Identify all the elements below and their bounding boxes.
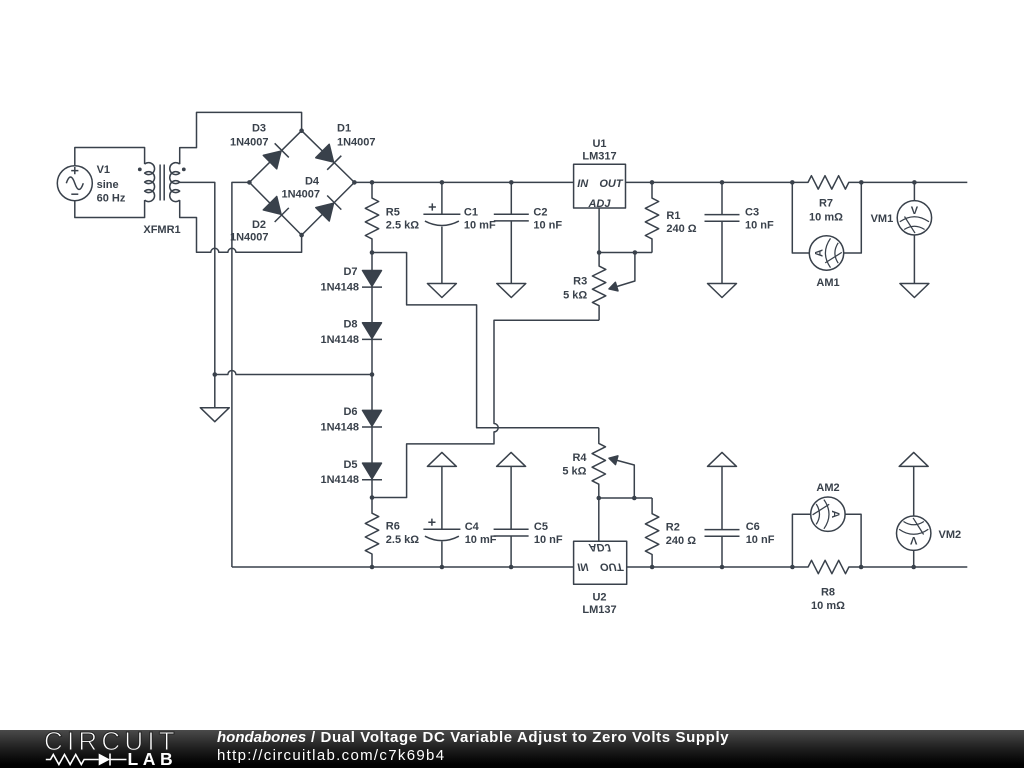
svg-text:R5: R5 <box>386 207 400 219</box>
svg-text:D1: D1 <box>337 123 351 135</box>
svg-text:1N4148: 1N4148 <box>320 421 359 433</box>
svg-text:R8: R8 <box>821 586 835 598</box>
svg-text:VM2: VM2 <box>939 529 962 541</box>
svg-text:1N4148: 1N4148 <box>320 282 359 294</box>
svg-text:U1: U1 <box>592 138 606 150</box>
svg-text:D8: D8 <box>343 319 357 331</box>
svg-text:D4: D4 <box>305 175 320 187</box>
svg-text:C4: C4 <box>465 521 480 533</box>
svg-text:LM137: LM137 <box>582 604 616 616</box>
svg-text:D7: D7 <box>343 266 357 278</box>
svg-text:2.5 kΩ: 2.5 kΩ <box>386 534 419 546</box>
svg-text:1N4007: 1N4007 <box>230 231 269 243</box>
svg-text:R7: R7 <box>819 198 833 210</box>
svg-text:VM1: VM1 <box>871 213 894 225</box>
svg-text:C2: C2 <box>533 207 547 219</box>
svg-text:sine: sine <box>97 179 119 191</box>
svg-text:240 Ω: 240 Ω <box>666 223 696 235</box>
svg-text:2.5 kΩ: 2.5 kΩ <box>386 220 419 232</box>
svg-text:ADJ: ADJ <box>588 541 612 553</box>
svg-text:R2: R2 <box>666 522 680 534</box>
svg-text:V: V <box>909 534 917 546</box>
svg-text:D2: D2 <box>252 219 266 231</box>
svg-text:10 nF: 10 nF <box>745 220 774 232</box>
svg-text:R3: R3 <box>573 276 587 288</box>
svg-text:240 Ω: 240 Ω <box>666 535 696 547</box>
svg-text:10 mF: 10 mF <box>464 220 496 232</box>
svg-text:10 mΩ: 10 mΩ <box>809 211 843 223</box>
svg-text:R4: R4 <box>572 452 587 464</box>
svg-text:IN: IN <box>577 178 589 190</box>
svg-text:5 kΩ: 5 kΩ <box>563 289 587 301</box>
svg-text:OUT: OUT <box>599 178 624 190</box>
svg-text:C6: C6 <box>746 521 760 533</box>
svg-text:1N4007: 1N4007 <box>281 189 320 201</box>
svg-text:10 mΩ: 10 mΩ <box>811 600 845 612</box>
svg-text:OUT: OUT <box>600 560 625 572</box>
svg-text:D5: D5 <box>343 459 357 471</box>
svg-text:AM1: AM1 <box>816 277 839 289</box>
svg-text:A: A <box>829 510 841 518</box>
svg-text:C3: C3 <box>745 207 759 219</box>
svg-text:XFMR1: XFMR1 <box>143 224 180 236</box>
svg-text:C1: C1 <box>464 207 478 219</box>
svg-text:R6: R6 <box>386 521 400 533</box>
svg-text:C5: C5 <box>534 521 548 533</box>
svg-text:5 kΩ: 5 kΩ <box>562 466 586 478</box>
svg-text:AM2: AM2 <box>816 482 839 494</box>
svg-text:R1: R1 <box>666 210 680 222</box>
svg-text:1N4148: 1N4148 <box>320 474 359 486</box>
svg-text:D3: D3 <box>252 123 266 135</box>
svg-text:10 nF: 10 nF <box>746 534 775 546</box>
svg-text:10 nF: 10 nF <box>534 534 563 546</box>
svg-text:IN: IN <box>577 560 589 572</box>
svg-text:A: A <box>814 249 826 257</box>
svg-text:1N4007: 1N4007 <box>337 137 376 149</box>
svg-text:V1: V1 <box>97 164 110 176</box>
svg-text:U2: U2 <box>592 592 606 604</box>
svg-text:V: V <box>911 205 919 217</box>
svg-text:ADJ: ADJ <box>587 198 611 210</box>
svg-text:10 mF: 10 mF <box>465 534 497 546</box>
svg-text:1N4148: 1N4148 <box>320 334 359 346</box>
svg-text:10 nF: 10 nF <box>533 220 562 232</box>
svg-text:LM317: LM317 <box>582 151 616 163</box>
svg-text:D6: D6 <box>343 406 357 418</box>
svg-text:60 Hz: 60 Hz <box>97 193 126 205</box>
svg-text:1N4007: 1N4007 <box>230 137 269 149</box>
